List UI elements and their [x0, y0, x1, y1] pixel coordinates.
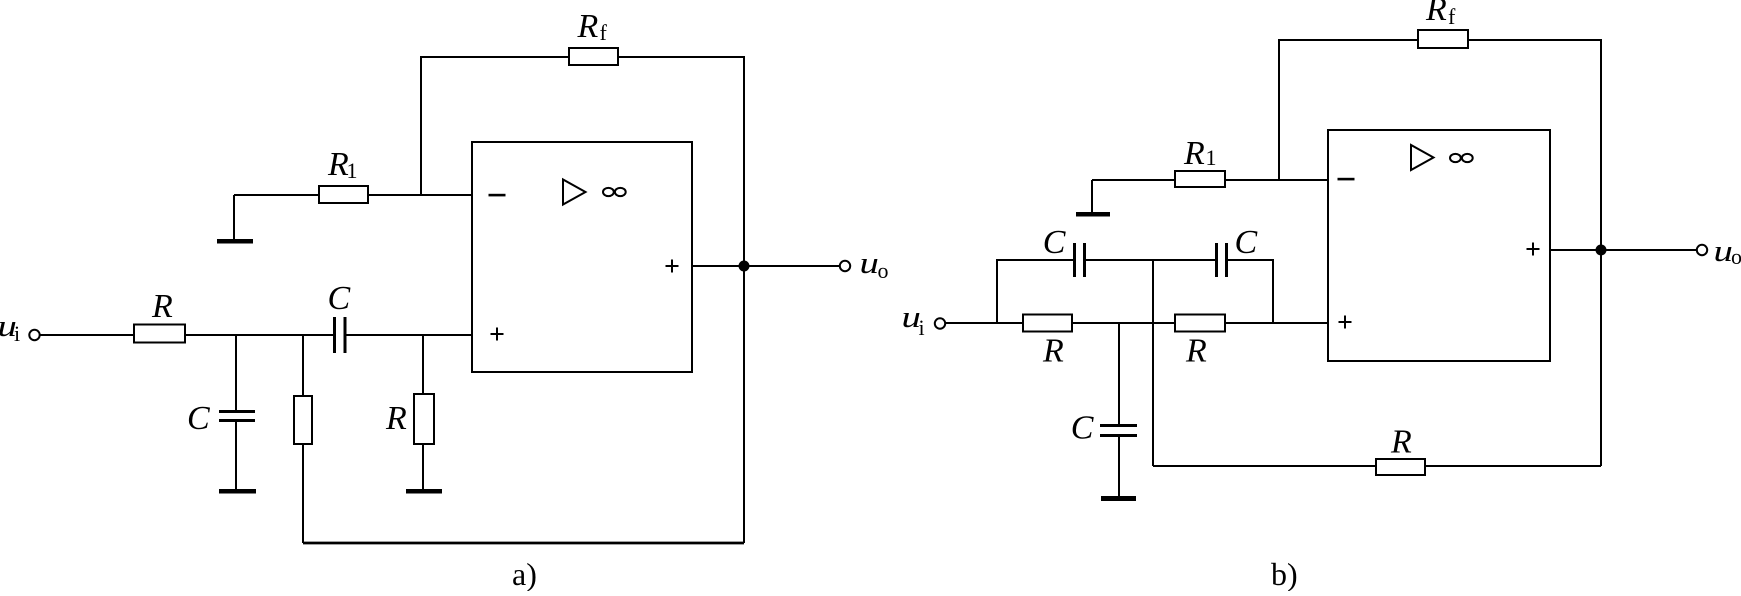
svg-text:R: R — [1183, 135, 1205, 172]
svg-text:o: o — [878, 258, 889, 283]
svg-text:C: C — [1071, 410, 1094, 447]
svg-text:b): b) — [1271, 556, 1298, 591]
svg-text:R: R — [1185, 333, 1207, 370]
svg-text:i: i — [919, 315, 925, 340]
svg-text:i: i — [14, 321, 20, 346]
svg-text:o: o — [1731, 244, 1741, 269]
svg-text:R: R — [1390, 424, 1412, 461]
svg-text:f: f — [1448, 4, 1456, 29]
svg-text:u: u — [860, 246, 879, 280]
svg-text:f: f — [600, 20, 608, 45]
svg-text:1: 1 — [347, 158, 358, 183]
svg-text:u: u — [1714, 234, 1733, 268]
svg-text:C: C — [328, 280, 351, 317]
svg-text:a): a) — [512, 556, 537, 591]
svg-text:R: R — [1042, 333, 1064, 370]
svg-text:R: R — [577, 8, 599, 45]
svg-text:C: C — [187, 400, 210, 437]
svg-text:1: 1 — [1206, 145, 1217, 170]
svg-text:C: C — [1235, 224, 1258, 261]
svg-text:C: C — [1043, 224, 1066, 261]
svg-text:R: R — [385, 400, 407, 437]
svg-text:R: R — [151, 288, 173, 325]
svg-text:R: R — [1425, 0, 1447, 28]
